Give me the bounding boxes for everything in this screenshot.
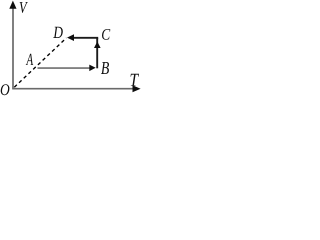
arrowhead at B — [89, 65, 95, 72]
wire B to C (black) — [96, 38, 98, 68]
node B label — [101, 62, 109, 74]
node C label — [102, 29, 110, 40]
V axis arrowhead — [9, 1, 16, 9]
T axis arrowhead — [133, 85, 141, 92]
node A label — [26, 54, 33, 65]
label V — [20, 2, 28, 13]
label T — [131, 74, 140, 86]
wire C to D (black) — [73, 37, 99, 39]
origin label O — [1, 84, 10, 95]
node D label — [53, 27, 63, 38]
arrowhead toward C — [94, 42, 101, 49]
wire A to B (gray) — [38, 67, 91, 69]
V axis (vertical, gray) — [12, 8, 14, 89]
T axis (horizontal, gray) — [12, 88, 133, 90]
arrowhead at D — [67, 34, 74, 41]
dashed line O to D — [14, 38, 66, 87]
